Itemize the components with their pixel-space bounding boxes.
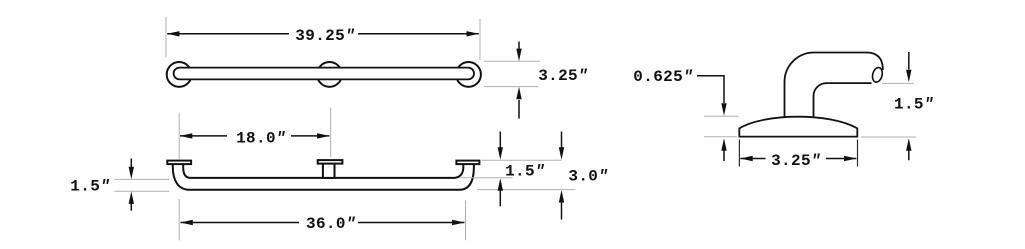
svg-text:39.25″: 39.25″	[295, 27, 355, 45]
39.25 right arrowhead	[467, 31, 480, 36]
36.0 dimension line	[181, 222, 300, 224]
18.0 right arrowhead	[317, 133, 330, 138]
reference line top of 3.25 flange dim	[484, 60, 540, 62]
top view: left wall plate	[167, 161, 191, 165]
right 1.5 dim up arrow	[499, 189, 501, 206]
svg-text:3.25″: 3.25″	[538, 67, 588, 85]
extension line right of 3.25 base dim	[857, 140, 859, 167]
3.0 dim down arrow	[561, 132, 563, 150]
extension line from middle circle to middle mount (18.0 dim right)	[330, 108, 332, 157]
top view: middle wall plate	[318, 160, 343, 164]
top view: right wall plate	[456, 161, 479, 165]
reference line bottom of left 1.5 dim	[115, 190, 170, 192]
3.25 base dimension line	[740, 158, 765, 160]
reference line flange top level (0.625 dim)	[704, 115, 739, 117]
reference line flange bottom level left (0.625 dim)	[704, 136, 737, 138]
extension line shared by 18.0 and 36.0 dims at left mount center	[178, 113, 180, 160]
side view: tube outer contour	[785, 53, 883, 120]
left 1.5 dim down arrow	[130, 159, 132, 170]
3.25 base left arrowhead	[740, 156, 753, 161]
left 1.5 dim up arrow	[130, 201, 132, 211]
svg-text:1.5″: 1.5″	[505, 163, 545, 181]
reference line top of left 1.5 dim	[115, 178, 170, 180]
3.0 dim up arrow	[561, 201, 563, 220]
36.0 left arrowhead	[180, 220, 193, 225]
svg-text:0.625″: 0.625″	[633, 68, 693, 86]
side 1.5 dim up arrow	[908, 150, 910, 160]
reference line bar far edge (3.0 dim)	[477, 189, 576, 191]
svg-text:1.5″: 1.5″	[70, 178, 110, 196]
39.25 left arrowhead	[167, 31, 180, 36]
front view: middle mount circle (behind bar)	[317, 62, 342, 87]
side view: tube end ellipse	[871, 66, 884, 83]
18.0 left arrowhead	[180, 133, 193, 138]
extension line right of 36.0 dim	[465, 201, 467, 241]
front view: grab bar tube	[174, 68, 474, 80]
3.25 flange dim up arrow	[518, 100, 520, 119]
extension line right of 39.25 dim	[479, 19, 481, 60]
top view: grab bar tube outline	[173, 162, 474, 190]
0.625 down arrowhead	[721, 103, 726, 116]
side 1.5 dim down arrow	[908, 52, 910, 70]
3.25 base right arrowhead	[844, 156, 857, 161]
reference line wall level right (1.5/3.0 dims)	[482, 159, 562, 161]
reference line tube end bottom (side 1.5 dim)	[882, 82, 914, 84]
front view: left flange outer circle	[167, 62, 192, 87]
svg-text:3.25″: 3.25″	[771, 152, 821, 170]
0.625 leader line	[697, 76, 724, 103]
3.25 flange dim down arrow	[518, 42, 520, 51]
18.0 dimension line	[180, 135, 227, 137]
svg-text:18.0″: 18.0″	[236, 129, 286, 147]
39.25 dimension line	[167, 33, 289, 35]
extension line left of 3.25 base dim	[738, 140, 740, 167]
right 1.5 dim down arrow	[499, 132, 501, 150]
36.0 right arrowhead	[452, 220, 465, 225]
reference line base bottom right (side 1.5 dim)	[861, 136, 916, 138]
reference line bar near edge (1.5 dim)	[459, 177, 513, 179]
reference line bottom of 3.25 flange dim	[484, 86, 539, 88]
extension line left of 39.25 dim	[165, 17, 167, 58]
svg-text:36.0″: 36.0″	[306, 215, 356, 233]
front view: right flange outer circle	[456, 62, 481, 87]
side view: tube inner contour	[814, 83, 872, 119]
svg-text:1.5″: 1.5″	[894, 96, 934, 114]
top view: middle mount stem	[323, 162, 335, 178]
side view: flange base dome	[739, 117, 857, 137]
0.625 up arrow	[723, 149, 725, 161]
svg-text:3.0″: 3.0″	[568, 167, 608, 185]
